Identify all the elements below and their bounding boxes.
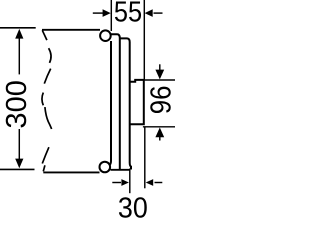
svg-text:30: 30	[118, 193, 148, 221]
svg-text:55: 55	[114, 0, 142, 29]
svg-text:96: 96	[145, 86, 175, 115]
svg-text:300: 300	[1, 80, 33, 129]
